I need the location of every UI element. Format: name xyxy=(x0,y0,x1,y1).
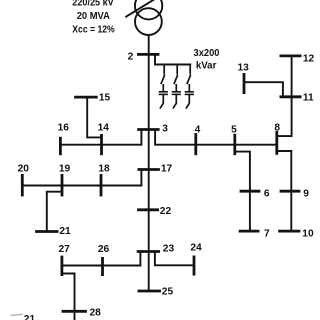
bus 27 tick xyxy=(61,256,64,276)
label 21 xyxy=(59,226,71,237)
label 23 xyxy=(163,243,175,254)
wire capacitor feeder drop from bus 2 xyxy=(155,55,191,65)
svg-text:20: 20 xyxy=(18,163,30,174)
transformer T1 tap-changer diagonal arrow xyxy=(125,0,154,17)
label 15 xyxy=(99,93,111,104)
bus 19 tick xyxy=(61,174,64,196)
bus 5 tick xyxy=(233,134,236,155)
transformer T1 top winding circle xyxy=(135,0,162,19)
svg-text:14: 14 xyxy=(98,122,110,133)
label 3 xyxy=(162,123,168,134)
label 6 xyxy=(264,188,270,199)
partial cropped bar bottom left xyxy=(11,314,23,315)
svg-text:18: 18 xyxy=(98,164,110,175)
bus 26 tick xyxy=(101,257,104,276)
label Xcc = 12% xyxy=(72,24,114,35)
svg-text:10: 10 xyxy=(302,228,314,239)
bus 15 bar xyxy=(74,96,98,99)
bus 11 bar xyxy=(280,95,302,98)
svg-text:17: 17 xyxy=(161,163,173,174)
capacitor C1 plates xyxy=(159,91,168,93)
label 3x200 xyxy=(194,48,220,59)
svg-text:7: 7 xyxy=(264,228,270,239)
bus 12 bar xyxy=(280,55,302,58)
bus 23 bar xyxy=(137,250,160,253)
label 27 xyxy=(59,244,71,255)
wire bus 23 right drop to bus 24 xyxy=(155,252,194,265)
label 18 xyxy=(98,164,110,175)
capacitor branch 3 lower blade xyxy=(186,103,190,109)
label 20 MVA xyxy=(77,11,111,22)
svg-text:23: 23 xyxy=(163,243,175,254)
bus 20 tick xyxy=(21,174,24,196)
label 25 xyxy=(162,286,174,297)
svg-text:28: 28 xyxy=(90,308,102,319)
svg-text:4: 4 xyxy=(195,125,201,136)
wire main feeder vertical bus2 to bus25 xyxy=(148,54,150,291)
svg-text:9: 9 xyxy=(303,188,309,199)
bus 16 tick xyxy=(59,137,62,155)
svg-text:24: 24 xyxy=(190,243,202,254)
capacitor branch 1 lower blade xyxy=(160,103,164,109)
bus 2 bar xyxy=(137,53,159,56)
svg-text:16: 16 xyxy=(58,122,70,133)
label 5 xyxy=(231,125,237,136)
svg-text:20 MVA: 20 MVA xyxy=(77,11,111,22)
wire bus 17 left drop to bus 20 xyxy=(22,170,141,186)
svg-text:6: 6 xyxy=(264,188,270,199)
label 24 xyxy=(190,243,202,254)
label 17 xyxy=(161,163,173,174)
label 4 xyxy=(195,125,201,136)
svg-text:27: 27 xyxy=(59,244,71,255)
transformer T1 bottom winding circle xyxy=(135,8,162,35)
label 220/25 kV xyxy=(72,0,114,9)
svg-text:13: 13 xyxy=(238,63,250,74)
svg-text:26: 26 xyxy=(98,244,110,255)
label 8 xyxy=(274,123,280,134)
svg-text:3x200: 3x200 xyxy=(194,48,220,59)
svg-text:220/25 kV: 220/25 kV xyxy=(72,0,114,9)
bus 28 bar xyxy=(62,310,87,313)
svg-text:25: 25 xyxy=(162,286,174,297)
wire bus 19 branch to bus 21 xyxy=(47,192,62,232)
label 10 xyxy=(302,228,314,239)
label 20 xyxy=(18,163,30,174)
wire bus 12 to bus 11 vertical xyxy=(291,56,293,97)
bus 14 tick xyxy=(100,134,103,155)
svg-text:kVar: kVar xyxy=(196,60,217,71)
svg-text:21: 21 xyxy=(24,314,36,320)
svg-text:22: 22 xyxy=(160,206,172,217)
wire bus 15 drop to bus 14 xyxy=(87,98,101,137)
capacitor branch 2 lower blade xyxy=(173,103,177,109)
wire bus 27 branch to bus 28 xyxy=(62,274,75,320)
bus 6 tick xyxy=(240,190,261,193)
capacitor branch 2 upper wire xyxy=(176,65,178,75)
svg-text:11: 11 xyxy=(303,93,314,104)
capacitor branch 3 mid wire xyxy=(188,84,190,91)
label 28 xyxy=(90,308,102,319)
wire bus 3 left drop xyxy=(60,130,141,145)
svg-text:8: 8 xyxy=(274,123,280,134)
wire bus 8 upper branch to bus 11 xyxy=(277,97,292,136)
svg-text:12: 12 xyxy=(303,53,315,64)
bus 24 tick xyxy=(193,256,196,276)
bus 4 tick xyxy=(194,133,197,155)
capacitor branch 2 lower wire xyxy=(175,95,177,103)
bus 18 tick xyxy=(100,174,103,196)
label 14 xyxy=(98,122,110,133)
capacitor branch 2 mid wire xyxy=(175,84,177,91)
wire bus 13 branch to bus 11 xyxy=(244,82,283,96)
wire bus 3 right drop to bus 8 xyxy=(155,130,277,145)
bus 9 tick xyxy=(280,190,301,193)
capacitor C3 plates xyxy=(185,91,194,93)
svg-text:19: 19 xyxy=(59,163,71,174)
svg-text:5: 5 xyxy=(231,125,237,136)
svg-text:21: 21 xyxy=(59,226,71,237)
capacitor branch 2 switch blade xyxy=(174,75,178,84)
label kVar xyxy=(196,60,217,71)
bus 7 bar xyxy=(239,230,260,233)
wire transformer lead to bus 2 xyxy=(148,35,150,55)
svg-text:3: 3 xyxy=(162,123,168,134)
label 19 xyxy=(59,163,71,174)
capacitor branch 3 switch blade xyxy=(187,75,191,84)
bus 22 bar xyxy=(137,208,159,211)
label 16 xyxy=(58,122,70,133)
bus 21 bar xyxy=(35,230,58,233)
capacitor branch 3 lower wire xyxy=(188,95,190,103)
partial cropped label 21 bottom left xyxy=(24,314,36,320)
bus 25 bar xyxy=(138,290,162,293)
capacitor branch 3 upper wire xyxy=(189,65,191,75)
label 7 xyxy=(264,228,270,239)
capacitor branch 1 upper wire xyxy=(163,65,165,75)
bus 13 tick xyxy=(243,73,246,94)
label 12 xyxy=(303,53,315,64)
bus 3 bar xyxy=(137,128,159,131)
capacitor branch 1 mid wire xyxy=(162,84,164,91)
label 22 xyxy=(160,206,172,217)
svg-text:2: 2 xyxy=(128,52,134,63)
label 13 xyxy=(238,63,250,74)
svg-text:Xcc = 12%: Xcc = 12% xyxy=(72,24,114,35)
label 11 xyxy=(303,93,314,104)
wire bus 23 left drop to bus 27 xyxy=(62,252,140,266)
bus 17 bar xyxy=(138,168,160,171)
wire bus 8 lower branch to bus 10 xyxy=(277,151,292,231)
label 2 xyxy=(128,52,134,63)
label 26 xyxy=(98,244,110,255)
label 9 xyxy=(303,188,309,199)
bus 8 tick xyxy=(275,131,278,155)
bus 10 bar xyxy=(278,230,300,233)
capacitor branch 1 lower wire xyxy=(162,95,164,103)
capacitor branch 1 switch blade xyxy=(161,75,165,84)
capacitor C2 plates xyxy=(172,91,181,93)
wire bus 5 lower branch to bus 7 xyxy=(235,152,250,232)
svg-text:15: 15 xyxy=(99,93,111,104)
